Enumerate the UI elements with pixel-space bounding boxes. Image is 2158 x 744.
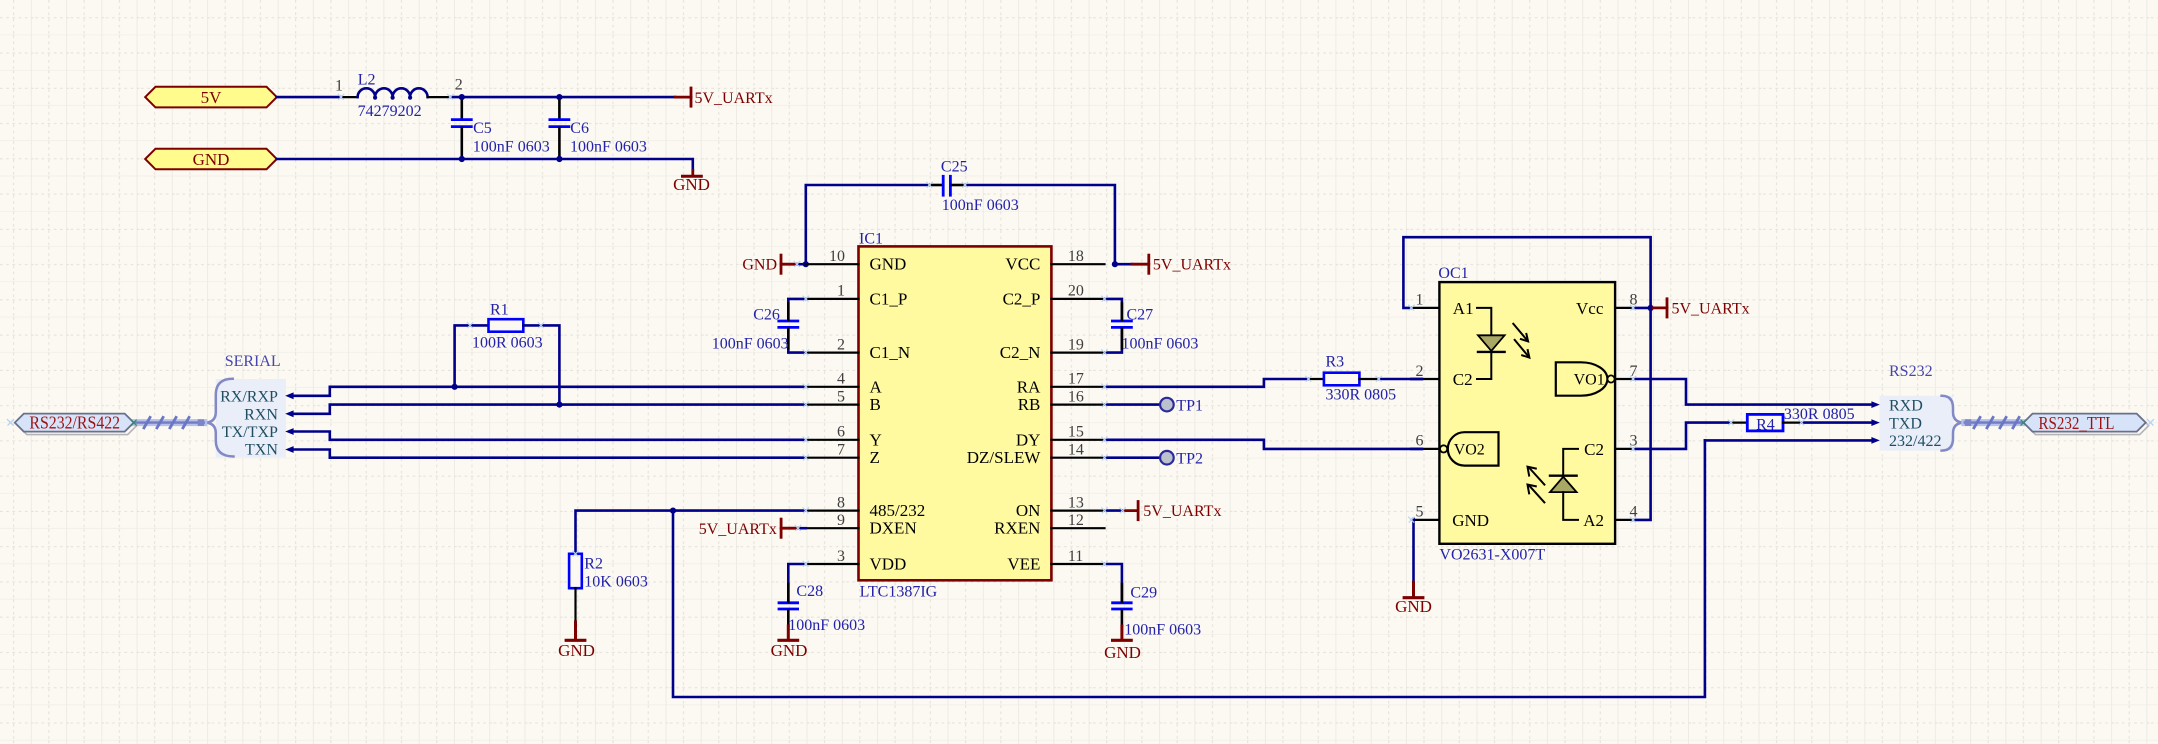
OC1 pin numbers left [1416,292,1424,521]
svg-text:VO1: VO1 [1574,372,1605,389]
svg-text:GND: GND [870,255,907,274]
harness SERIAL box [216,353,286,459]
svg-text:7: 7 [837,442,845,459]
svg-text:18: 18 [1068,248,1084,265]
svg-text:1: 1 [1416,292,1424,309]
harness entry arrow RXD [1871,401,1879,408]
svg-text:C6: C6 [570,120,589,137]
capacitor C27 [1105,299,1199,353]
svg-text:DY: DY [1016,430,1041,449]
svg-text:C27: C27 [1127,307,1154,324]
svg-text:R4: R4 [1756,416,1775,433]
harness brace left [205,379,234,457]
harness RS232 box [1880,363,1954,450]
no-erc marker right port [2148,420,2154,426]
ground GND under C29 [1104,626,1141,662]
wire junction to bottom bus [673,440,1705,697]
wire OC1 pin7 to RXD [1633,379,1872,405]
inductor L2 [335,71,463,120]
svg-text:C1_N: C1_N [870,343,911,362]
svg-text:ON: ON [1016,501,1041,520]
svg-text:2: 2 [837,336,845,353]
svg-text:VO2: VO2 [1454,442,1485,459]
wire OC1 pin3 to R4 [1633,423,1731,449]
harness entry arrow 232/422 [1871,437,1879,444]
svg-text:330R 0805: 330R 0805 [1326,387,1397,404]
svg-text:232/422: 232/422 [1889,433,1941,450]
svg-text:100nF 0603: 100nF 0603 [712,335,789,352]
testpoint TP1 [1160,398,1203,415]
svg-text:TX/TXP: TX/TXP [222,424,278,441]
wire TXN to pin Z [293,450,806,458]
svg-text:GND: GND [742,257,777,274]
IC1 body [859,231,1052,601]
svg-text:VCC: VCC [1005,255,1040,274]
svg-text:74279202: 74279202 [358,103,422,120]
LED2 inside OC1 [1550,449,1578,520]
svg-text:100nF 0603: 100nF 0603 [1122,335,1199,352]
wire 232/422 stub [1705,439,1872,442]
svg-text:DZ/SLEW: DZ/SLEW [967,448,1042,467]
svg-text:100R 0603: 100R 0603 [472,335,543,352]
wire OC1 pin5 to ground [1412,519,1415,582]
svg-text:16: 16 [1068,388,1084,405]
svg-text:OC1: OC1 [1438,265,1468,282]
svg-text:GND: GND [673,175,710,194]
OC1 left pins [1411,308,1439,520]
svg-text:2: 2 [455,77,463,94]
power 5V_UARTx at IC1 pin13 ON [1105,502,1222,521]
wire RA to R3 [1105,379,1309,387]
svg-text:100nF 0603: 100nF 0603 [570,138,647,155]
connection markers teal [131,420,136,425]
capacitor C26 [712,299,806,353]
svg-text:100nF 0603: 100nF 0603 [788,617,865,634]
svg-text:IC1: IC1 [859,231,883,248]
svg-text:R1: R1 [490,302,509,319]
capacitor C29 [1105,564,1202,638]
junction IC1 pin18 [1112,261,1118,267]
svg-text:RS232: RS232 [1889,363,1933,380]
svg-text:2: 2 [1416,363,1424,380]
svg-text:C1_P: C1_P [870,289,908,308]
harness cable right [1965,417,2024,427]
capacitor C6 [550,97,647,159]
svg-text:C29: C29 [1130,585,1157,602]
junction IC1 pin10 [803,261,809,267]
svg-text:C5: C5 [473,120,492,137]
resistor R1 [455,302,560,405]
junction R1 left on A [452,384,458,390]
svg-text:VDD: VDD [870,555,907,574]
ground GND under R2 [558,622,595,660]
junction C5 top [459,94,465,100]
OC1 pin numbers right [1630,292,1638,521]
svg-text:C2: C2 [1584,440,1604,459]
power 5V_UARTx at OC1 pin8 [1651,299,1750,318]
power port 5V_UARTx top [675,88,772,107]
OC1 pin labels [1452,299,1604,530]
harness brace right [1942,396,1965,451]
wire L2 pin2 to 5V_UARTx [450,96,675,99]
svg-text:TP1: TP1 [1176,398,1203,415]
svg-text:5V_UARTx: 5V_UARTx [1143,503,1221,520]
svg-text:100nF 0603: 100nF 0603 [1124,621,1201,638]
wire C25 top loop [806,185,930,264]
svg-text:1: 1 [335,78,343,95]
svg-text:RS232/RS422: RS232/RS422 [29,413,120,433]
svg-text:A2: A2 [1583,511,1604,530]
resistor R2 [569,554,648,622]
svg-text:B: B [870,395,881,414]
OC1 right pins [1615,308,1633,520]
svg-text:17: 17 [1068,371,1084,388]
svg-text:12: 12 [1068,512,1084,529]
wire OC1 pin8 stub [1633,307,1651,310]
capacitor C25 [930,159,1019,215]
svg-text:RA: RA [1017,377,1041,396]
IC1 left pin names [870,255,926,574]
ground GND top [673,170,710,194]
svg-text:5V_UARTx: 5V_UARTx [1672,300,1750,317]
ground GND under C28 [771,626,808,660]
svg-text:100nF 0603: 100nF 0603 [473,138,550,155]
svg-text:100nF 0603: 100nF 0603 [942,197,1019,214]
IC1 right pin names [967,255,1042,574]
wire TX/TXP to pin Y [293,432,806,440]
svg-text:GND: GND [558,641,595,660]
svg-text:1: 1 [837,283,845,300]
svg-text:VEE: VEE [1007,555,1040,574]
svg-text:C2: C2 [1453,370,1473,389]
wire R4 to TXD [1802,421,1872,424]
junction R1 right on B [556,402,562,408]
wire R3 to OC1 pin2 [1379,378,1422,381]
svg-text:VO2631-X007T: VO2631-X007T [1439,547,1545,564]
port RS232_TTL [2024,413,2149,435]
svg-text:RXD: RXD [1889,398,1923,415]
svg-text:5V_UARTx: 5V_UARTx [695,90,773,107]
harness entry arrow RX/RXP [285,392,293,399]
harness entry arrow TX/TXP [285,428,293,435]
svg-text:5V_UARTx: 5V_UARTx [699,521,777,538]
wire OC1 pin8 vertical to pin4 [1633,308,1651,520]
svg-text:GND: GND [1452,511,1489,530]
wire DY to OC1 pin6 [1105,440,1422,449]
svg-text:5: 5 [1416,504,1424,521]
svg-text:A1: A1 [1453,299,1474,318]
svg-text:L2: L2 [358,71,376,88]
svg-text:RXEN: RXEN [994,519,1040,538]
svg-text:GND: GND [1395,597,1432,616]
gate VO1 [1556,362,1615,395]
svg-text:330R 0805: 330R 0805 [1784,406,1855,423]
svg-text:13: 13 [1068,494,1084,511]
svg-text:C2_P: C2_P [1003,289,1041,308]
svg-text:SERIAL: SERIAL [225,353,281,370]
no-erc marker left port [8,420,14,426]
harness entry arrow TXN [285,446,293,453]
svg-text:RB: RB [1018,395,1041,414]
svg-text:9: 9 [837,512,845,529]
svg-text:C26: C26 [753,307,780,324]
IC1 right pin numbers [1068,248,1084,565]
junction C6 bottom [556,156,562,162]
svg-text:8: 8 [837,494,845,511]
wire GND port to corner [277,159,693,170]
svg-text:20: 20 [1068,283,1084,300]
harness entry arrow RXN [285,410,293,417]
LED1 emission arrows [1513,324,1529,358]
power GND at IC1 pin10 [742,255,805,273]
svg-text:Z: Z [870,448,880,467]
capacitor C28 [779,564,865,634]
svg-text:GND: GND [1104,643,1141,662]
wire OC1 pin1 loop to pin8 [1403,237,1650,308]
svg-text:RX/RXP: RX/RXP [220,389,278,406]
wire RXN to pin B [293,405,806,414]
svg-text:3: 3 [837,548,845,565]
port RS232/RS422 [15,413,137,435]
harness entry arrow TXD [1871,419,1879,426]
junction OC1 pin8 [1648,305,1654,311]
svg-text:4: 4 [837,371,845,388]
svg-text:5V_UARTx: 5V_UARTx [1153,257,1231,274]
svg-text:5: 5 [837,388,845,405]
svg-text:R3: R3 [1326,354,1345,371]
svg-text:Y: Y [870,430,882,449]
LED1 inside OC1 [1477,308,1505,379]
resistor R3 [1309,354,1397,404]
harness cable left [134,417,204,427]
svg-text:DXEN: DXEN [870,519,917,538]
junction 485/232 [670,508,676,514]
svg-text:19: 19 [1068,336,1084,353]
IC1 left pins [806,264,859,564]
testpoint TP2 [1160,451,1203,468]
svg-text:Vcc: Vcc [1576,299,1604,318]
wire RX/RXP to pin A [293,387,806,396]
wire DZ/SLEW to TP2 [1105,456,1161,459]
svg-text:A: A [870,377,883,396]
ground GND under OC1 [1395,582,1432,616]
wire-end markers [338,94,1804,567]
svg-text:LTC1387IG: LTC1387IG [860,584,938,601]
power 5V_UARTx at IC1 pin9 DXEN [699,519,806,538]
capacitor C5 [452,97,549,159]
IC1 right pins [1051,264,1104,564]
svg-text:14: 14 [1068,442,1084,459]
svg-text:10K 0603: 10K 0603 [584,573,648,590]
svg-text:C28: C28 [796,583,823,600]
svg-text:C25: C25 [941,159,968,176]
svg-text:RXN: RXN [244,406,278,423]
wire overlays on OC1 left pins [1411,378,1422,381]
svg-text:15: 15 [1068,424,1084,441]
OC1 body [1438,265,1615,564]
resistor R4 [1731,406,1855,433]
power 5V_UARTx at IC1 pin18 [1115,255,1231,274]
svg-text:TXN: TXN [245,442,278,459]
svg-text:C2_N: C2_N [1000,343,1041,362]
svg-text:5V: 5V [201,88,223,107]
svg-text:485/232: 485/232 [870,501,926,520]
svg-text:6: 6 [837,424,845,441]
svg-text:TXD: TXD [1889,415,1922,432]
IC1 left pin numbers [829,248,845,565]
svg-text:GND: GND [193,150,230,169]
gate VO2 [1440,432,1499,465]
port 5V [145,87,277,108]
svg-text:11: 11 [1068,548,1083,565]
junction C6 top [556,94,562,100]
svg-text:GND: GND [771,641,808,660]
svg-text:TP2: TP2 [1176,451,1203,468]
svg-text:RS232_TTL: RS232_TTL [2039,413,2115,433]
junction C5 bottom [459,156,465,162]
svg-text:R2: R2 [584,555,603,572]
wire IC1 pin8 to R2 [576,511,806,554]
wire 5V port to L2 pin1 [277,96,341,99]
svg-text:6: 6 [1416,433,1424,450]
LED2 emission arrows [1528,467,1545,503]
svg-text:10: 10 [829,248,845,265]
wire RB to TP1 [1105,403,1161,406]
port GND [145,149,277,170]
